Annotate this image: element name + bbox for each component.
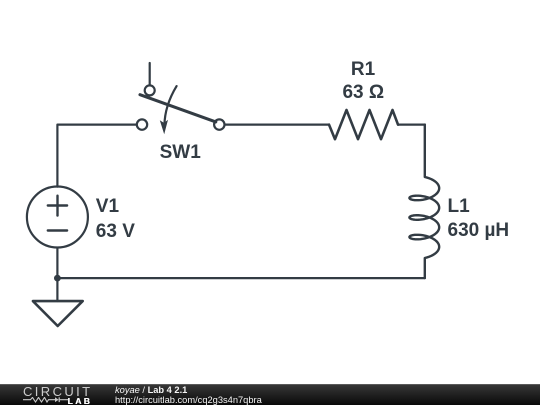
wire: resistor R1 to top-right corner bbox=[398, 123, 425, 125]
voltage source V1 bbox=[27, 187, 88, 248]
switch SW1 bbox=[137, 63, 225, 134]
svg-text:630 µH: 630 µH bbox=[448, 220, 510, 241]
ground bbox=[33, 278, 83, 326]
label SW1 bbox=[160, 142, 202, 163]
footer bar bbox=[0, 384, 540, 405]
CircuitLab logo wordmark bbox=[23, 386, 93, 398]
svg-text:R1: R1 bbox=[351, 59, 376, 80]
inductor L1 bbox=[409, 125, 439, 279]
node: junction of V1, ground and bottom rail bbox=[54, 275, 61, 282]
switch right terminal bbox=[214, 119, 224, 129]
wire: V1 top up and right to switch left terminal bbox=[57, 125, 136, 187]
wire: stub above switch top terminal bbox=[149, 63, 151, 85]
CircuitLab logo zigzag-diode bbox=[23, 397, 69, 405]
svg-text:SW1: SW1 bbox=[160, 142, 202, 163]
svg-text:63 V: 63 V bbox=[96, 221, 135, 242]
switch actuation arrow bbox=[164, 86, 176, 125]
CircuitLab logo LAB bbox=[68, 397, 93, 405]
svg-text:63 Ω: 63 Ω bbox=[342, 82, 384, 103]
switch blade bbox=[140, 95, 216, 122]
resistor R1 bbox=[329, 110, 398, 139]
wire: V1 bottom to junction node bbox=[56, 248, 58, 279]
switch left terminal bbox=[137, 119, 147, 129]
label R1 value bbox=[342, 59, 384, 103]
wire: bottom rail from inductor to junction bbox=[57, 277, 424, 279]
svg-text:V1: V1 bbox=[96, 196, 120, 217]
label V1 value bbox=[96, 196, 135, 242]
switch top terminal bbox=[145, 85, 155, 95]
wire: switch right terminal to resistor R1 bbox=[225, 123, 329, 125]
svg-text:L1: L1 bbox=[448, 196, 471, 217]
label L1 value bbox=[448, 196, 510, 241]
footer title and url bbox=[115, 386, 262, 405]
